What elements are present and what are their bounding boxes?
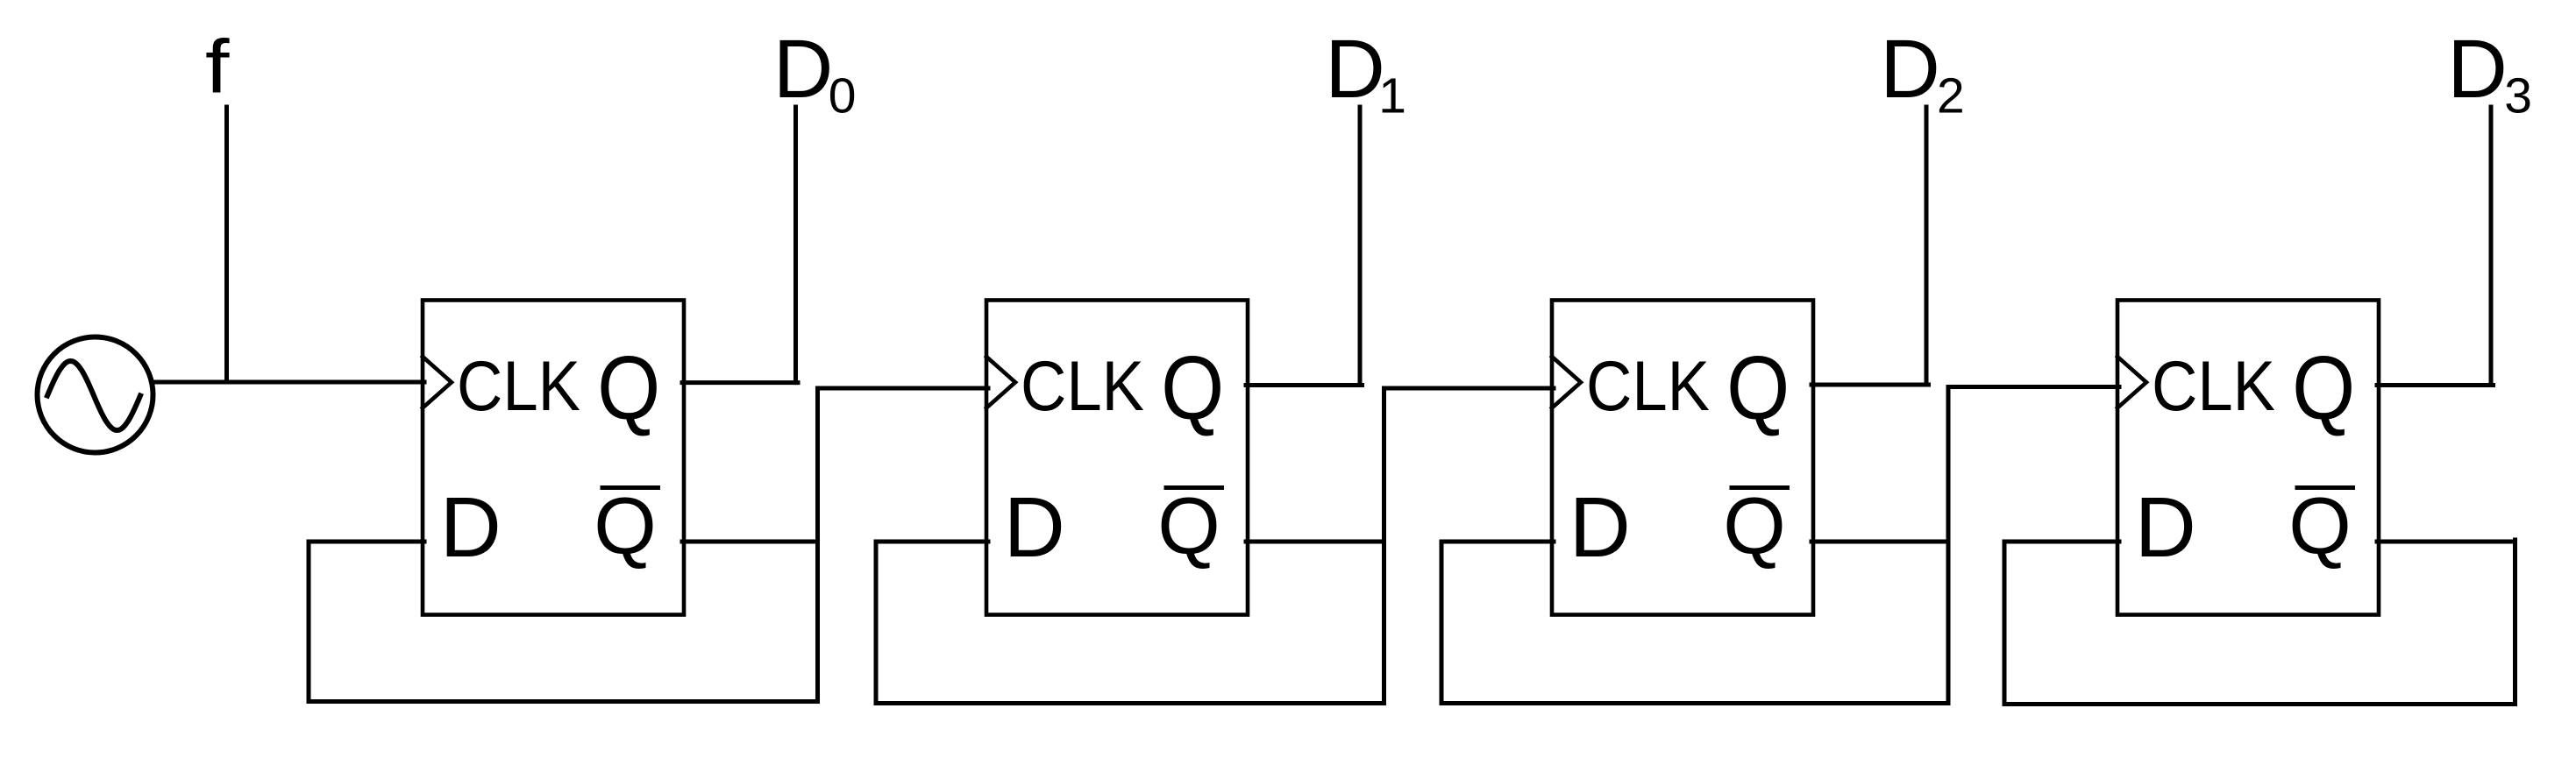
svg-text:Q: Q (597, 336, 660, 438)
svg-text:Q: Q (1157, 482, 1220, 571)
svg-text:1: 1 (1378, 68, 1406, 124)
svg-text:D: D (2447, 23, 2508, 116)
svg-text:Q: Q (1161, 336, 1224, 438)
svg-text:f: f (205, 25, 230, 110)
svg-text:CLK: CLK (457, 347, 580, 426)
svg-text:2: 2 (1937, 68, 1965, 124)
svg-text:CLK: CLK (1021, 347, 1144, 426)
svg-text:0: 0 (829, 68, 857, 124)
svg-text:D: D (1325, 23, 1385, 116)
svg-text:Q: Q (1723, 482, 1786, 571)
svg-text:Q: Q (1726, 336, 1790, 438)
svg-text:Q: Q (2288, 482, 2352, 571)
svg-text:D: D (440, 479, 502, 575)
svg-text:3: 3 (2504, 68, 2532, 124)
svg-text:D: D (1880, 23, 1940, 116)
svg-text:D: D (1569, 479, 1631, 575)
svg-text:Q: Q (594, 482, 657, 571)
svg-text:Q: Q (2292, 336, 2355, 438)
svg-text:D: D (773, 23, 834, 116)
svg-text:CLK: CLK (1586, 347, 1710, 426)
svg-text:D: D (2135, 479, 2196, 575)
svg-text:D: D (1004, 479, 1065, 575)
svg-text:CLK: CLK (2152, 347, 2275, 426)
